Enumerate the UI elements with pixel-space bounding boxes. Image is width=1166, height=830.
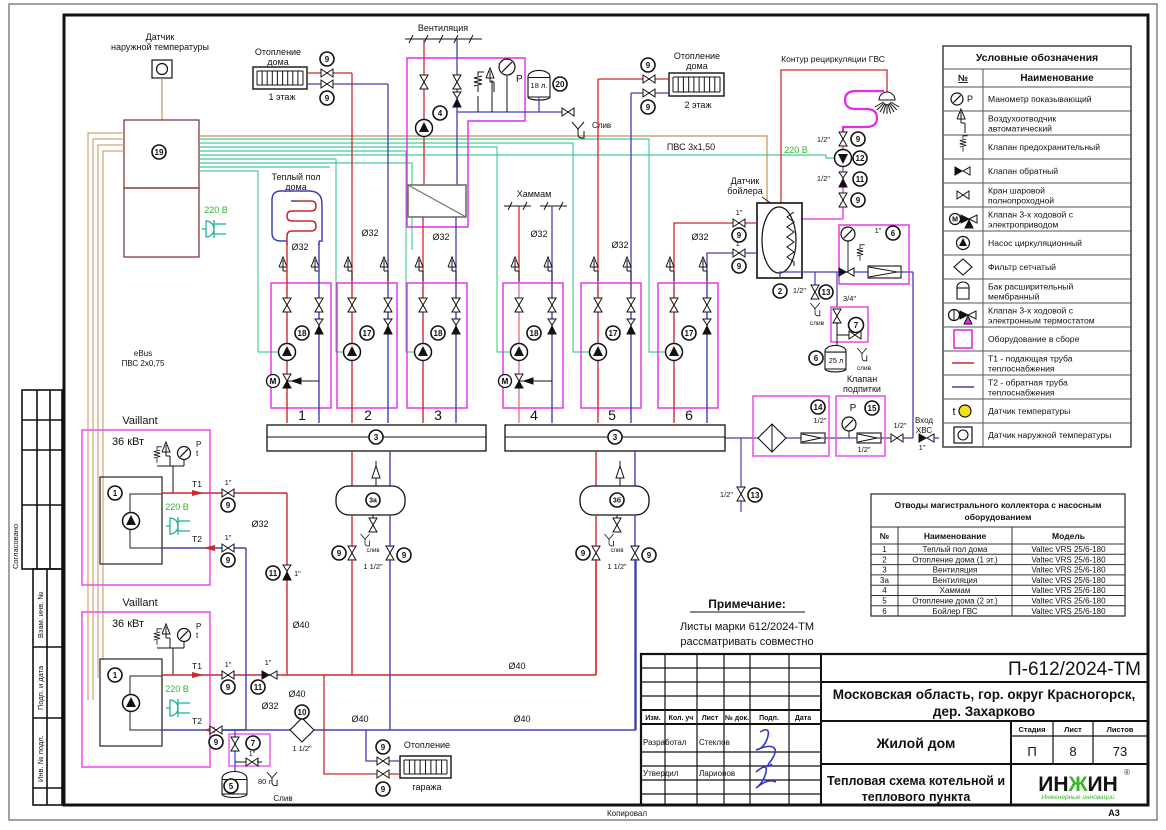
svg-text:4: 4 <box>530 407 538 423</box>
pipe supply circuit 5 <box>597 283 599 423</box>
svg-text:9: 9 <box>325 55 330 64</box>
pipe supply circuit 4 <box>518 283 520 423</box>
collector 1 <box>267 425 486 451</box>
svg-text:7: 7 <box>251 739 256 748</box>
svg-text:А3: А3 <box>1108 808 1120 818</box>
equipment box pump group 5 (magenta) <box>581 283 641 408</box>
svg-text:13: 13 <box>822 288 831 297</box>
svg-text:Вентиляция: Вентиляция <box>418 23 468 33</box>
svg-text:теплоснабжения: теплоснабжения <box>988 364 1055 374</box>
svg-text:6: 6 <box>882 607 887 616</box>
svg-text:1: 1 <box>882 545 887 554</box>
circled 9 recirc top <box>851 132 865 146</box>
svg-text:8: 8 <box>1069 744 1076 759</box>
svg-text:15: 15 <box>868 404 877 413</box>
svg-text:9: 9 <box>581 549 586 558</box>
svg-text:17: 17 <box>363 329 372 338</box>
eBus wires bundle <box>88 133 124 700</box>
pipe recirculation supply red <box>781 70 887 203</box>
svg-text:Ø32: Ø32 <box>530 229 547 239</box>
svg-text:Подп.: Подп. <box>759 715 779 722</box>
svg-text:14: 14 <box>814 403 823 412</box>
svg-text:11: 11 <box>269 569 278 578</box>
equipment box pump group 1 (magenta) <box>271 283 331 408</box>
circled 1 Vaillant 1 <box>108 486 122 500</box>
svg-text:П-612/2024-ТМ: П-612/2024-ТМ <box>1008 659 1141 680</box>
expansion tank 25l <box>836 335 838 345</box>
circled 18 pump group 1 <box>295 326 309 340</box>
svg-text:1 1/2": 1 1/2" <box>363 562 383 571</box>
circled 7 lower <box>246 736 260 750</box>
pipe return circuit 3 <box>455 283 457 423</box>
svg-text:слив: слив <box>610 548 623 554</box>
svg-text:Разработал: Разработал <box>643 738 687 747</box>
circled 9 garage supply <box>376 782 390 796</box>
strainer filter cw <box>868 266 901 278</box>
check valve circuit 5 <box>627 319 635 334</box>
svg-text:Листов: Листов <box>1107 725 1134 734</box>
ball valve garage return <box>377 757 389 765</box>
svg-text:19: 19 <box>155 148 164 157</box>
plug 220V Vaillant 1 <box>166 517 190 535</box>
svg-text:eBus: eBus <box>134 349 152 358</box>
circled 12 <box>853 151 867 165</box>
svg-text:1": 1" <box>736 239 743 248</box>
svg-text:17: 17 <box>609 329 618 338</box>
svg-text:1 1/2": 1 1/2" <box>292 744 312 753</box>
check valve T1 Vaillant 2 1" <box>262 671 277 679</box>
air vent circuit 5 return <box>623 257 631 281</box>
svg-text:оборудованием: оборудованием <box>965 512 1032 522</box>
air vent circuit 3 supply <box>415 257 423 281</box>
safety valve box6 <box>857 245 865 261</box>
equipment box Vaillant 2 (magenta) <box>82 612 210 767</box>
svg-text:Vaillant: Vaillant <box>122 415 157 427</box>
svg-text:теплоснабжения: теплоснабжения <box>988 388 1055 398</box>
filter make-up (diamond) <box>758 424 786 452</box>
valve return circuit 2 <box>384 298 392 312</box>
svg-text:11: 11 <box>254 683 263 692</box>
svg-text:Клапан 3-х ходовой с: Клапан 3-х ходовой с <box>988 306 1074 316</box>
air vent circuit 1 supply <box>279 257 287 281</box>
svg-text:Отопление: Отопление <box>674 51 720 61</box>
svg-text:П: П <box>1027 744 1036 759</box>
svg-text:6: 6 <box>685 407 693 423</box>
pipe supply circuit 6 <box>673 283 675 423</box>
svg-text:Ø40: Ø40 <box>513 714 530 724</box>
svg-text:25 л: 25 л <box>829 356 844 365</box>
svg-text:Условные обозначения: Условные обозначения <box>976 52 1098 64</box>
make-up water pipe <box>725 437 913 439</box>
equipment box ventilation (magenta) <box>407 58 525 227</box>
circled 9 T1 Vaillant 1 <box>221 498 235 512</box>
circled 6 tank <box>809 351 823 365</box>
pipe return circuit 1 <box>318 243 320 423</box>
svg-text:Примечание:: Примечание: <box>708 597 786 611</box>
svg-text:теплового пункта: теплового пункта <box>862 790 972 804</box>
svg-text:гаража: гаража <box>412 782 441 792</box>
floor heating coil <box>287 201 316 245</box>
check valve ventilation return <box>453 92 461 107</box>
ball valve T2 Vaillant 2 1" <box>210 726 222 734</box>
svg-text:17: 17 <box>685 329 694 338</box>
check valve circuit 4 <box>548 319 556 334</box>
svg-text:Бойлер ГВС: Бойлер ГВС <box>932 607 977 616</box>
svg-text:Насос циркуляционный: Насос циркуляционный <box>988 238 1082 248</box>
svg-text:Ø40: Ø40 <box>292 620 309 630</box>
svg-text:9: 9 <box>381 785 386 794</box>
safety group Vaillant 2 <box>157 648 173 675</box>
svg-text:220 В: 220 В <box>165 502 189 512</box>
pipe T2 Vaillant 1 <box>162 547 246 549</box>
svg-text:1 этаж: 1 этаж <box>269 92 296 102</box>
circled 18 pump group 3 <box>431 326 445 340</box>
valve supply circuit 3 <box>419 298 427 312</box>
pipe riser T1 Vaillant 1 <box>286 493 288 675</box>
svg-text:Ø32: Ø32 <box>291 242 308 252</box>
outdoor temperature sensor <box>152 60 172 78</box>
svg-text:Копировал: Копировал <box>607 809 647 818</box>
3-way valve with actuator circuit 4 <box>499 374 553 388</box>
strainer make-up 2 <box>857 433 881 443</box>
check valve circuit 6 <box>703 319 711 334</box>
svg-text:Теплый пол дома: Теплый пол дома <box>923 545 988 554</box>
svg-text:1: 1 <box>298 407 306 423</box>
svg-text:18: 18 <box>434 329 443 338</box>
equipment box Vaillant 1 (magenta) <box>82 430 210 585</box>
pipe garage return <box>366 730 400 761</box>
pipe separator 2 supply down <box>595 515 597 547</box>
svg-text:ХВС: ХВС <box>916 426 932 435</box>
circled 6 box <box>886 226 900 240</box>
heat-trace coil (magenta) <box>843 91 884 133</box>
pump 4 ventilation <box>416 120 433 137</box>
ball valve radiator1 supply <box>321 69 333 77</box>
drain valve expansion <box>836 322 838 335</box>
table Отводы магистрального коллектора <box>871 494 1125 616</box>
svg-text:Хаммам: Хаммам <box>940 586 971 595</box>
svg-text:ИНЖИН: ИНЖИН <box>1038 773 1118 796</box>
check valve cw <box>839 268 854 276</box>
svg-text:Отопление дома (2 эт.): Отопление дома (2 эт.) <box>912 597 998 606</box>
legend table Условные обозначения <box>943 46 1131 447</box>
ball valve separator 1 return <box>386 546 394 560</box>
svg-text:Отопление: Отопление <box>255 47 301 57</box>
cold water riser <box>912 272 914 438</box>
svg-text:Оборудование в сборе: Оборудование в сборе <box>988 334 1080 344</box>
valve return circuit 4 <box>548 298 556 312</box>
svg-text:Valtec VRS 25/6-180: Valtec VRS 25/6-180 <box>1031 545 1106 554</box>
svg-text:Стеклов: Стеклов <box>699 738 730 747</box>
pipe return circuit 4 <box>551 283 553 423</box>
svg-text:Ларионов: Ларионов <box>699 769 735 778</box>
svg-text:73: 73 <box>1113 744 1127 759</box>
circled 11 Vaillant 2 <box>251 680 265 694</box>
air vent ventilation <box>486 68 494 92</box>
pipe hammam return <box>551 206 553 283</box>
svg-text:Вентиляция: Вентиляция <box>933 566 978 575</box>
svg-text:автоматический: автоматический <box>988 124 1052 134</box>
svg-text:Слив: Слив <box>592 121 611 130</box>
svg-text:10: 10 <box>298 708 307 717</box>
3-way valve with actuator circuit 1 <box>267 374 320 388</box>
pipe T2 radiator2 <box>631 92 669 94</box>
shower head <box>875 92 899 114</box>
equipment box 6 (magenta) <box>839 225 909 284</box>
left margin column (Взам. инв. № / Подп. и дата / Инв. № подл.) <box>33 569 62 805</box>
ball valve boiler supply 1" <box>733 219 745 227</box>
check valve inlet <box>919 434 934 442</box>
pump circuit 3 <box>415 344 432 361</box>
wire sensor to controller <box>161 78 163 120</box>
svg-text:Согласовано: Согласовано <box>11 524 20 569</box>
valve supply circuit 6 <box>670 298 678 312</box>
svg-text:1": 1" <box>919 443 926 452</box>
svg-text:220 В: 220 В <box>165 684 189 694</box>
pipe supply circuit 2 <box>351 283 353 423</box>
svg-text:9: 9 <box>337 549 342 558</box>
plug 220V Vaillant 2 <box>166 699 190 717</box>
svg-text:®: ® <box>1124 768 1130 777</box>
pressure gauge ventilation <box>499 59 515 75</box>
svg-text:5: 5 <box>882 597 887 606</box>
ball valve boiler return 1" <box>733 249 745 257</box>
svg-text:Листы марки 612/2024-ТМ: Листы марки 612/2024-ТМ <box>680 621 814 633</box>
svg-text:3: 3 <box>374 433 379 442</box>
drain valve separator 1 <box>372 515 374 520</box>
svg-text:Клапан 3-х ходовой с: Клапан 3-х ходовой с <box>988 210 1074 220</box>
boiler unit Vaillant 2 <box>100 659 162 746</box>
svg-text:2: 2 <box>778 287 783 296</box>
svg-text:1 1/2": 1 1/2" <box>607 562 627 571</box>
svg-text:Наименование: Наименование <box>1020 73 1094 84</box>
svg-text:электронным термостатом: электронным термостатом <box>988 316 1095 326</box>
svg-text:Valtec VRS 25/6-180: Valtec VRS 25/6-180 <box>1031 586 1106 595</box>
check valve circuit 3 <box>452 319 460 334</box>
pressure gauge box6 <box>841 227 855 241</box>
pump Vaillant 1 <box>123 513 140 530</box>
svg-text:3: 3 <box>434 407 442 423</box>
valve ventilation return <box>453 75 461 89</box>
circled 3 collector 1 <box>369 430 383 444</box>
svg-text:1": 1" <box>265 658 272 667</box>
ball valve separator 2 supply <box>592 546 600 560</box>
main supply pipe Ø40 <box>287 674 596 676</box>
pipe T1 Vaillant 1 <box>162 492 287 494</box>
svg-text:1/2": 1/2" <box>817 174 830 183</box>
svg-text:бойлера: бойлера <box>727 186 762 196</box>
hydraulic separator 2 <box>580 486 649 515</box>
svg-text:M: M <box>502 377 509 386</box>
heat exchanger ventilation <box>408 185 466 217</box>
svg-text:слив: слив <box>366 548 379 554</box>
pipe supply circuit 3 <box>422 283 424 423</box>
svg-text:Фильтр сетчатый: Фильтр сетчатый <box>988 262 1056 272</box>
svg-text:Изм.: Изм. <box>645 715 661 722</box>
valve supply circuit 2 <box>348 298 356 312</box>
svg-text:1/2": 1/2" <box>793 286 806 295</box>
valve supply circuit 5 <box>594 298 602 312</box>
svg-text:P: P <box>850 403 857 414</box>
svg-text:P: P <box>196 440 201 449</box>
circled 17 pump group 5 <box>606 326 620 340</box>
svg-text:мембранный: мембранный <box>988 292 1040 302</box>
DHW boiler tank 2 <box>757 203 802 278</box>
pump circuit 4 <box>511 344 528 361</box>
pipe T2 radiator1 <box>307 83 388 85</box>
svg-text:220 В: 220 В <box>784 145 808 155</box>
svg-text:1/2": 1/2" <box>817 135 830 144</box>
circled 9 separator 1 return <box>397 548 411 562</box>
svg-text:T2: T2 <box>192 716 202 726</box>
svg-text:3: 3 <box>613 433 618 442</box>
svg-text:36 кВт: 36 кВт <box>112 618 144 630</box>
hydraulic separator 1 <box>336 486 405 515</box>
air vent circuit 6 supply <box>666 257 674 281</box>
svg-text:Дата: Дата <box>795 715 811 722</box>
circled 4 <box>433 106 447 120</box>
ball valve garage supply <box>377 770 389 778</box>
equipment box 14 (magenta) <box>753 396 829 456</box>
pipe T1 radiator2 <box>598 78 669 80</box>
svg-text:220 В: 220 В <box>204 205 228 215</box>
circled 10 filter <box>295 705 309 719</box>
svg-text:Датчик температуры: Датчик температуры <box>988 406 1070 416</box>
drain stub 13 make-up <box>740 438 742 488</box>
pump circuit 6 <box>666 344 683 361</box>
svg-text:1": 1" <box>225 478 232 487</box>
pump circuit 2 <box>344 344 361 361</box>
safety group ventilation piping <box>457 111 529 113</box>
ball valve radiator2 return <box>643 89 655 97</box>
svg-text:Р: Р <box>967 94 973 104</box>
svg-text:Клапан предохранительный: Клапан предохранительный <box>988 142 1100 152</box>
svg-text:13: 13 <box>751 491 760 500</box>
svg-text:полнопроходной: полнопроходной <box>988 196 1054 206</box>
svg-text:Ø32: Ø32 <box>261 701 278 711</box>
svg-text:1": 1" <box>294 569 301 578</box>
air vent circuit 3 return <box>448 257 456 281</box>
circled 17 pump group 2 <box>360 326 374 340</box>
ball valve T1 Vaillant 2 1" <box>222 671 234 679</box>
equipment box pump group 6 (magenta) <box>658 283 718 408</box>
equipment box pump group 3 (magenta) <box>407 283 467 408</box>
svg-text:Ø40: Ø40 <box>288 689 305 699</box>
svg-text:ПВС 3х1,50: ПВС 3х1,50 <box>667 142 715 152</box>
circled 11 riser <box>266 566 280 580</box>
svg-text:Т1 - подающая труба: Т1 - подающая труба <box>988 354 1073 364</box>
circled 20 <box>553 77 567 91</box>
svg-text:Клапан обратный: Клапан обратный <box>988 166 1058 176</box>
svg-text:Датчик наружной температуры: Датчик наружной температуры <box>988 430 1111 440</box>
svg-text:M: M <box>270 377 277 386</box>
svg-text:1: 1 <box>113 489 118 498</box>
svg-text:Утвердил: Утвердил <box>643 769 679 778</box>
svg-text:дома: дома <box>686 61 707 71</box>
svg-text:Московская область, гор. округ: Московская область, гор. округ Красногор… <box>833 687 1136 702</box>
svg-text:Ø32: Ø32 <box>691 232 708 242</box>
svg-text:7: 7 <box>854 321 859 330</box>
valve 80l branch <box>234 730 236 771</box>
svg-text:9: 9 <box>226 683 231 692</box>
pump 12 recirculation <box>835 150 852 167</box>
svg-text:Модель: Модель <box>1052 531 1085 541</box>
svg-text:2: 2 <box>882 555 887 564</box>
svg-text:Жилой дом: Жилой дом <box>876 735 956 751</box>
svg-text:2 этаж: 2 этаж <box>685 100 712 110</box>
safety valve ventilation <box>474 72 484 92</box>
pipe return circuit 2 <box>387 283 389 423</box>
svg-text:Клапан: Клапан <box>847 374 877 384</box>
circled 17 pump group 6 <box>682 326 696 340</box>
svg-text:T2: T2 <box>192 534 202 544</box>
svg-text:t: t <box>952 406 955 418</box>
circled 18 pump group 4 <box>527 326 541 340</box>
svg-text:Вентиляция: Вентиляция <box>933 576 978 585</box>
svg-text:Valtec VRS 25/6-180: Valtec VRS 25/6-180 <box>1031 555 1106 564</box>
circled 5 tank 80л <box>224 779 238 793</box>
circled 9 boiler return <box>732 259 746 273</box>
svg-text:9: 9 <box>856 135 861 144</box>
svg-text:№ док.: № док. <box>725 714 749 722</box>
circled 9 T2 Vaillant 1 <box>221 553 235 567</box>
pipe T1 Vaillant 2 <box>162 674 287 676</box>
svg-text:3а: 3а <box>369 498 377 505</box>
svg-text:Ø32: Ø32 <box>361 228 378 238</box>
svg-text:Хаммам: Хаммам <box>517 189 552 199</box>
drain valve separator 2 <box>616 515 618 520</box>
equipment box 7 (magenta) <box>831 307 868 342</box>
svg-text:Лист: Лист <box>702 715 719 722</box>
svg-text:P: P <box>196 622 201 631</box>
expansion tank 80l <box>222 772 247 798</box>
air vent circuit 4 supply <box>511 257 519 281</box>
ball valve radiator2 supply <box>643 75 655 83</box>
circled 9 separator 1 supply <box>332 546 346 560</box>
signature scribbles <box>756 730 775 767</box>
pipe hammam supply <box>518 206 520 283</box>
svg-text:дома: дома <box>267 57 288 67</box>
svg-text:Ø32: Ø32 <box>432 232 449 242</box>
svg-text:наружной температуры: наружной температуры <box>111 42 209 52</box>
svg-text:ПВС 2х0,75: ПВС 2х0,75 <box>122 359 165 368</box>
svg-text:Кран шаровой: Кран шаровой <box>988 186 1045 196</box>
valve expansion branch <box>833 309 841 323</box>
pipe separator 1 supply down <box>351 515 353 547</box>
svg-text:M: M <box>952 217 958 224</box>
circled 9 radiator1 supply <box>320 52 334 66</box>
safety group Vaillant 1 <box>157 466 173 493</box>
svg-text:P: P <box>516 74 523 85</box>
svg-text:9: 9 <box>402 551 407 560</box>
check valve circuit 1 <box>315 319 323 334</box>
svg-text:слив: слив <box>810 320 825 327</box>
air vent circuit 1 return <box>311 257 319 281</box>
circled 2 boiler <box>773 284 787 298</box>
ventilation break line <box>405 35 482 43</box>
collector 2 <box>505 425 725 451</box>
pipe recirculation chain <box>842 130 844 219</box>
ball valve 80l drain <box>235 761 247 763</box>
pipe exchanger to pump group 3 <box>422 217 424 283</box>
pipe supply circuit 1 <box>286 243 288 423</box>
svg-text:1": 1" <box>225 533 232 542</box>
circled 9 radiator1 return <box>320 91 334 105</box>
branch 3/4 to expansion tank <box>836 272 838 307</box>
check valve recirc <box>839 172 847 187</box>
approval table (Согласовано) <box>22 390 62 569</box>
pipe drop T2 Vaillant 1 <box>245 548 247 730</box>
